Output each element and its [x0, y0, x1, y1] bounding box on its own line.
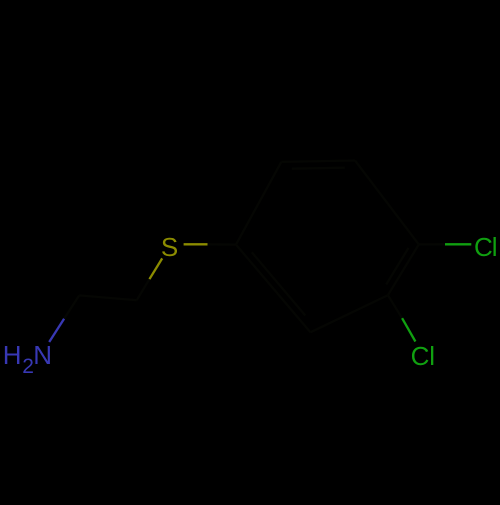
wire bond S to CH2a sulfur half	[149, 258, 162, 279]
wire bond C3 to Cl chlorine half	[402, 318, 415, 341]
wire ring bond C5-C6 inner double line	[292, 168, 345, 169]
wire bond S to C1 carbon half	[208, 243, 237, 246]
wire bond S to C1 sulfur half	[184, 243, 208, 245]
wire bond C4 to Cl carbon half	[419, 243, 445, 245]
svg-text:C: C	[411, 341, 430, 371]
wire ring bond C3-C4 inner double line	[386, 248, 408, 285]
wire ring bond C1-C2	[236, 245, 310, 333]
wire bond CH2a to CH2b	[79, 295, 137, 300]
wire bond S to CH2a carbon half	[137, 279, 150, 300]
wire bond CH2b to N nitrogen half	[49, 319, 64, 342]
svg-text:l: l	[429, 341, 435, 371]
svg-text:2: 2	[22, 355, 34, 378]
svg-text:C: C	[474, 232, 493, 262]
wire ring bond C5-C6	[281, 161, 355, 162]
wire ring bond C3-C4	[388, 244, 419, 295]
svg-text:S: S	[161, 232, 178, 262]
wire ring bond C6-C1	[236, 162, 281, 245]
wire ring bond C1-C2 inner double line	[252, 252, 305, 315]
svg-text:H: H	[3, 340, 22, 370]
wire bond CH2b to N carbon half	[64, 295, 79, 318]
wire bond C3 to Cl carbon half	[388, 295, 402, 318]
svg-text:N: N	[33, 340, 52, 370]
wire ring bond C2-C3	[310, 295, 388, 332]
wire bond C4 to Cl chlorine half	[445, 243, 471, 245]
wire ring bond C4-C5	[355, 161, 419, 245]
svg-text:l: l	[492, 232, 498, 262]
